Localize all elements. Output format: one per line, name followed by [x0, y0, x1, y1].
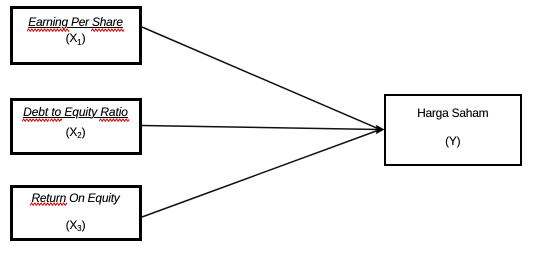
label X2 title: [10, 105, 141, 120]
box X3 (Return On Equity): [10, 185, 142, 242]
wire arrow from X1 to Y: [142, 27, 379, 129]
label Y sub: [384, 134, 522, 149]
wire arrow from X2 to Y: [142, 126, 379, 130]
arrowhead at Y: [376, 125, 385, 135]
box X1 (Earning Per Share): [10, 6, 142, 65]
box Y (Harga Saham): [384, 94, 522, 167]
box X2 (Debt to Equity Ratio): [10, 98, 142, 155]
label X3 sub: [10, 218, 141, 234]
wire arrow from X3 to Y: [142, 130, 379, 217]
label X1 title: [10, 15, 141, 30]
label Y title: [384, 106, 522, 121]
label X3 title: [10, 191, 141, 206]
label X1 sub: [10, 31, 141, 47]
label X2 sub: [10, 125, 141, 141]
